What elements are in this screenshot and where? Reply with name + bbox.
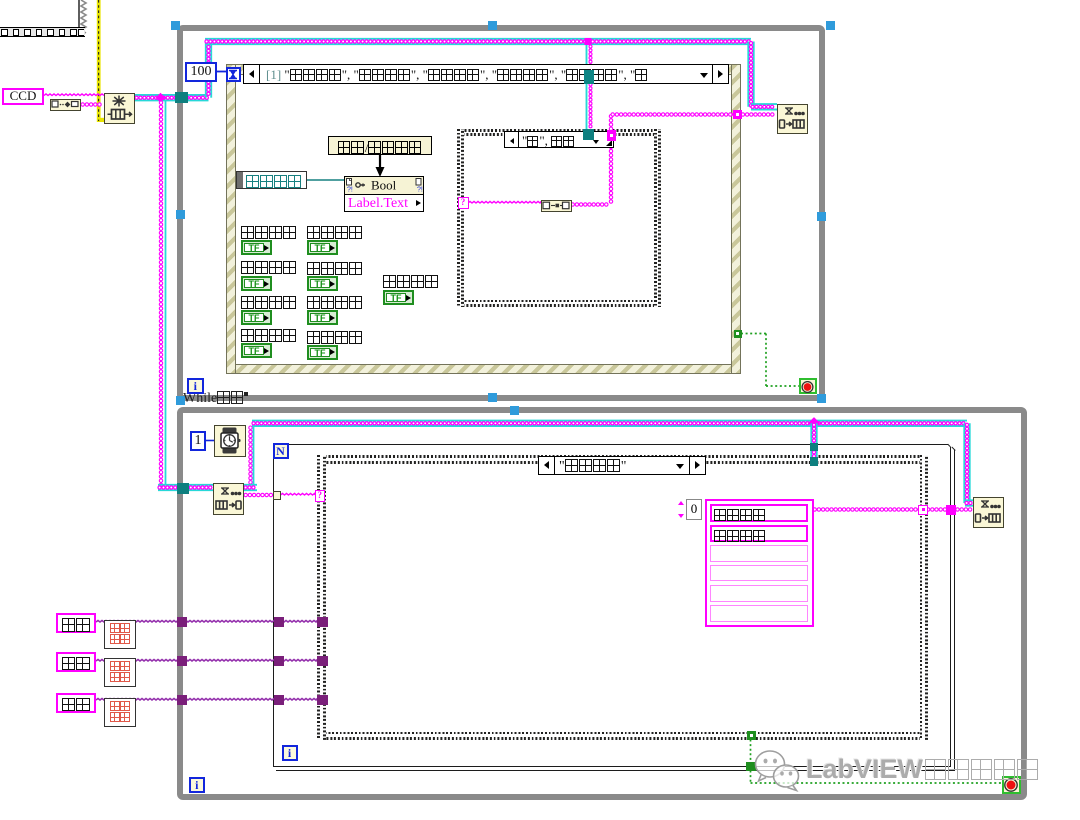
wire: control reference to property node <box>307 179 344 181</box>
N count terminal <box>273 443 289 459</box>
wire: yellow refnum vertical <box>97 0 101 122</box>
for loop i terminal <box>282 745 298 761</box>
event timeout hourglass terminal <box>226 67 241 82</box>
teal tunnel for-loop top (queue branch) <box>810 443 819 451</box>
teal tunnel case2 top (queue branch) <box>810 457 819 466</box>
boolean terminal TF <box>241 343 272 358</box>
wire: case selector to element icon <box>468 201 541 203</box>
while loop 2 border <box>177 407 1027 801</box>
wire: boolean to while2 stop <box>750 740 752 762</box>
1 constant <box>190 431 206 451</box>
boolean terminal TF <box>241 310 272 325</box>
wire: queue name constant to Obtain Queue <box>81 103 101 106</box>
obtain queue function <box>104 93 135 124</box>
event structure border (hatched) <box>226 64 741 75</box>
boolean labels column 1 <box>241 225 297 241</box>
green tunnel case2 bottom <box>747 731 756 741</box>
boolean labels column 2 <box>307 225 363 241</box>
wire: dequeue element out <box>244 493 273 496</box>
wire: queue branch down to case1 tunnel <box>586 45 588 130</box>
case structure 2 header <box>538 456 706 476</box>
listbox constant (pink table) <box>705 499 814 627</box>
wait(ms) watch icon <box>214 425 246 457</box>
wire: string from case1 to event tunnel <box>609 115 612 131</box>
teal tunnel while2 left <box>177 483 189 494</box>
wire: queue down to Release <box>963 423 965 503</box>
boolean terminal TF <box>307 345 338 360</box>
wire: CCD string to Obtain Queue <box>44 94 104 96</box>
boolean terminal TF <box>241 240 272 255</box>
while2 i terminal <box>189 777 206 793</box>
for loop left tunnel (dequeue) <box>273 491 282 500</box>
wires: three IMAQ image wires <box>96 621 317 623</box>
wire: queue into Dequeue <box>158 484 213 486</box>
wire: 100 to timeout <box>217 71 226 73</box>
获取图像 subVI icon 2 <box>104 658 136 687</box>
wire: element icon output <box>571 203 608 206</box>
teal tunnel case1 top <box>583 129 594 140</box>
property node U1 (Bool / Label.Text) <box>344 176 424 212</box>
wire: queue branch into case2 <box>810 423 812 458</box>
label 属性/标签文本 <box>328 136 432 155</box>
wire: listbox strings to Release <box>813 508 972 511</box>
boolean terminal TF <box>383 290 414 305</box>
green tunnel for loop bottom <box>746 762 756 772</box>
wire: queue into Enqueue <box>751 103 777 105</box>
wire: queue down to Enqueue <box>747 42 749 107</box>
dequeue element icon <box>213 483 244 515</box>
green tunnel event right <box>734 330 742 339</box>
wire: 1 to wait ms <box>206 440 214 442</box>
teal tunnel while1 left <box>175 92 188 103</box>
while1 i terminal <box>187 378 204 394</box>
selection handles while loop 2 <box>176 396 185 405</box>
magenta tunnel case2 right (open) <box>918 505 928 515</box>
arrow from label to property node <box>373 152 387 178</box>
wire: queue branch down to while2 <box>159 101 162 487</box>
获取图像 subVI icon 1 <box>104 620 136 649</box>
boolean terminal TF <box>307 310 338 325</box>
queue name constant <box>50 99 81 111</box>
获取图像 subVI icon 3 <box>104 698 136 727</box>
magenta tunnel case1 top-right <box>607 130 617 141</box>
wire: queue riser inside while1 <box>205 42 207 98</box>
selection handles while loop 1 <box>171 21 180 30</box>
magenta tunnel for loop right <box>946 505 956 515</box>
stop terminal while2 <box>1002 776 1021 795</box>
image label 模板 <box>56 652 96 672</box>
while loop 2 label "While循环" <box>183 391 248 407</box>
wire: element to case2 selector <box>281 493 316 495</box>
enqueue element (top right) <box>777 104 808 134</box>
boolean terminal TF <box>307 276 338 291</box>
svg-text:?!: ?! <box>347 187 353 194</box>
for loop border <box>273 444 274 767</box>
boolean 运行一次 <box>383 274 439 290</box>
image label 原图 <box>56 613 96 633</box>
event structure selector header <box>243 64 729 85</box>
boolean terminal TF <box>307 240 338 255</box>
control reference 控件引用 <box>236 171 307 189</box>
magenta tunnel event right <box>733 110 743 119</box>
while loop 1 border <box>177 25 825 401</box>
svg-text:?!: ?! <box>417 187 423 194</box>
stop terminal while1 <box>799 378 817 395</box>
image label 二值 <box>56 693 96 713</box>
svg-text:Bool: Bool <box>371 178 397 193</box>
case structure 2 border (checkered) <box>317 455 928 464</box>
enqueue element small icon (inside case1) <box>541 200 572 212</box>
wire: queue along top of while1 <box>205 38 751 40</box>
wire: queue along top of for loop <box>252 420 967 422</box>
case2 selector terminal ? <box>315 490 326 502</box>
CCD control <box>2 88 44 105</box>
listbox index spinner 0 <box>678 499 703 521</box>
100 constant <box>185 62 217 82</box>
teal square on event header <box>584 70 594 84</box>
flat sequence structure border fragment (top-left) <box>78 0 81 29</box>
wire: boolean to while1 stop <box>741 333 766 335</box>
wire: queue out of Obtain Queue <box>135 94 209 96</box>
release/enqueue icon (bottom right) <box>973 497 1004 528</box>
case structure 1 header <box>504 131 614 149</box>
image wire tunnels <box>177 617 187 627</box>
case1 selector terminal ? <box>458 197 469 209</box>
boolean terminal TF <box>241 276 272 291</box>
case structure 1 border (checkered) <box>457 129 661 136</box>
watermark text LabVIEW视觉俱乐部 <box>806 754 1040 785</box>
watermark wechat logo <box>753 748 805 794</box>
